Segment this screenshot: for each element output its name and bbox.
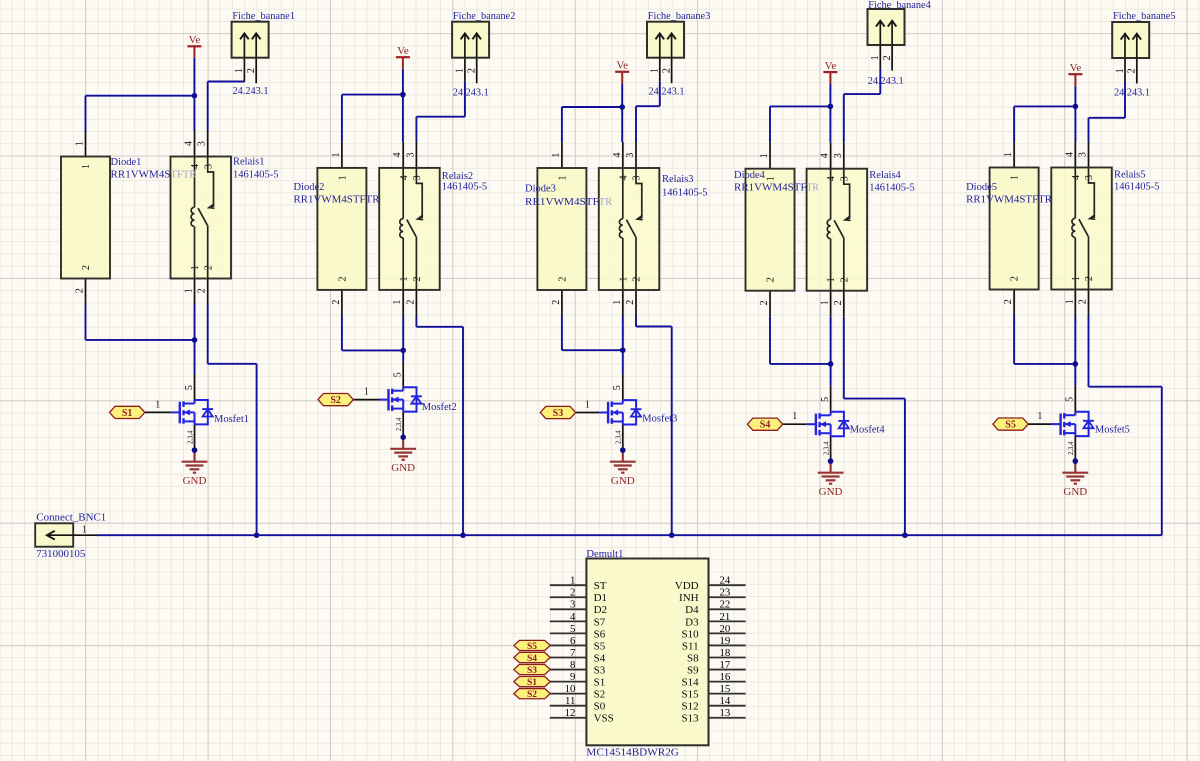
svg-text:2: 2 <box>203 265 214 270</box>
svg-text:1: 1 <box>234 68 245 73</box>
svg-text:2,3,4: 2,3,4 <box>823 441 830 455</box>
svg-text:INH: INH <box>679 592 699 604</box>
svg-text:S3: S3 <box>594 664 606 676</box>
svg-text:Diode4: Diode4 <box>734 170 766 181</box>
svg-text:2: 2 <box>625 300 636 305</box>
svg-text:18: 18 <box>720 647 731 659</box>
svg-text:731000105: 731000105 <box>36 549 85 560</box>
svg-text:Fiche_banane3: Fiche_banane3 <box>648 11 711 22</box>
svg-text:Ve: Ve <box>825 60 837 72</box>
svg-text:21: 21 <box>720 611 731 623</box>
svg-text:4: 4 <box>392 153 403 158</box>
svg-text:S0: S0 <box>594 701 606 713</box>
svg-text:5: 5 <box>820 397 831 402</box>
svg-text:GND: GND <box>1063 486 1087 498</box>
svg-text:2: 2 <box>467 68 478 73</box>
svg-text:Mosfet4: Mosfet4 <box>850 425 886 436</box>
svg-text:Ve: Ve <box>397 45 409 57</box>
svg-text:1: 1 <box>331 153 342 158</box>
svg-text:GND: GND <box>183 475 207 487</box>
svg-text:Diode1: Diode1 <box>111 157 142 168</box>
svg-text:S4: S4 <box>594 652 606 664</box>
svg-text:2: 2 <box>839 277 850 282</box>
svg-text:6: 6 <box>570 635 576 647</box>
svg-text:3: 3 <box>405 153 416 158</box>
svg-text:1: 1 <box>570 575 575 587</box>
svg-text:1: 1 <box>1064 299 1075 304</box>
svg-text:2: 2 <box>882 55 893 60</box>
svg-text:3: 3 <box>1078 152 1089 157</box>
svg-text:24.243.1: 24.243.1 <box>649 85 685 97</box>
svg-text:3: 3 <box>412 175 423 180</box>
svg-text:S1: S1 <box>122 408 133 419</box>
svg-text:4: 4 <box>184 141 195 146</box>
svg-text:1: 1 <box>612 300 623 305</box>
svg-text:3: 3 <box>625 153 636 158</box>
svg-text:1: 1 <box>820 300 831 305</box>
svg-text:1461405-5: 1461405-5 <box>1114 181 1160 192</box>
svg-text:S4: S4 <box>760 420 771 431</box>
svg-text:S11: S11 <box>682 640 699 652</box>
svg-text:Relais2: Relais2 <box>442 171 474 182</box>
svg-text:1: 1 <box>792 411 797 422</box>
svg-text:S8: S8 <box>687 652 699 664</box>
svg-text:23: 23 <box>720 587 731 599</box>
svg-text:D4: D4 <box>685 604 699 616</box>
svg-text:Mosfet5: Mosfet5 <box>1095 424 1130 435</box>
svg-text:1: 1 <box>1037 411 1042 422</box>
svg-text:1: 1 <box>766 176 777 181</box>
svg-text:2: 2 <box>570 587 575 599</box>
svg-text:4: 4 <box>1064 152 1075 157</box>
svg-text:1: 1 <box>1115 68 1126 73</box>
svg-text:19: 19 <box>720 635 731 647</box>
svg-text:3: 3 <box>1084 175 1095 180</box>
svg-text:Fiche_banane4: Fiche_banane4 <box>868 0 931 11</box>
svg-text:S6: S6 <box>594 628 606 640</box>
svg-text:Fiche_banane2: Fiche_banane2 <box>453 11 516 22</box>
svg-text:Relais1: Relais1 <box>233 156 265 167</box>
svg-text:2: 2 <box>75 288 86 293</box>
svg-text:2: 2 <box>197 288 208 293</box>
svg-text:RR1VWM4S: RR1VWM4S <box>111 170 171 181</box>
svg-text:20: 20 <box>720 623 731 635</box>
svg-text:1: 1 <box>551 153 562 158</box>
svg-text:3: 3 <box>632 176 643 181</box>
svg-text:S12: S12 <box>681 701 698 713</box>
svg-text:2: 2 <box>759 300 770 305</box>
svg-text:S14: S14 <box>681 677 699 689</box>
svg-text:2: 2 <box>833 300 844 305</box>
svg-text:4: 4 <box>820 153 831 158</box>
svg-text:4: 4 <box>618 176 629 181</box>
svg-text:24.243.1: 24.243.1 <box>1114 87 1150 99</box>
svg-text:ST: ST <box>594 580 607 592</box>
svg-text:Ve: Ve <box>616 60 628 72</box>
svg-text:Diode3: Diode3 <box>525 184 556 195</box>
svg-text:3: 3 <box>203 164 214 169</box>
svg-text:D1: D1 <box>594 592 607 604</box>
svg-text:Mosfet2: Mosfet2 <box>422 402 457 413</box>
svg-text:GND: GND <box>391 462 415 474</box>
svg-text:1: 1 <box>1010 175 1021 180</box>
svg-text:1: 1 <box>1003 152 1014 157</box>
svg-text:RR1VWM4STFTR: RR1VWM4STFTR <box>966 194 1052 205</box>
svg-text:1: 1 <box>558 176 569 181</box>
svg-text:1461405-5: 1461405-5 <box>869 183 915 194</box>
svg-text:3: 3 <box>839 176 850 181</box>
svg-text:1: 1 <box>618 277 629 282</box>
svg-text:2,3,4: 2,3,4 <box>396 417 403 431</box>
svg-text:13: 13 <box>720 707 731 719</box>
svg-text:16: 16 <box>720 671 731 683</box>
svg-text:24.243.1: 24.243.1 <box>868 75 904 87</box>
svg-text:S10: S10 <box>681 628 699 640</box>
svg-text:2: 2 <box>338 277 349 282</box>
svg-text:4: 4 <box>612 153 623 158</box>
svg-text:Relais4: Relais4 <box>869 170 901 181</box>
svg-text:3: 3 <box>197 141 208 146</box>
svg-text:Fiche_banane1: Fiche_banane1 <box>232 11 295 22</box>
svg-text:S15: S15 <box>681 689 699 701</box>
svg-text:RR1VWM4STF: RR1VWM4STF <box>734 183 807 194</box>
svg-text:3: 3 <box>833 153 844 158</box>
svg-text:2: 2 <box>412 277 423 282</box>
svg-text:4: 4 <box>190 164 201 169</box>
svg-text:2: 2 <box>558 277 569 282</box>
svg-text:1: 1 <box>392 300 403 305</box>
svg-text:S13: S13 <box>681 713 699 725</box>
svg-text:RR1VWM4STF: RR1VWM4STF <box>525 197 599 208</box>
svg-text:1461405-5: 1461405-5 <box>233 170 279 181</box>
svg-text:1: 1 <box>81 164 92 169</box>
svg-text:D3: D3 <box>685 616 699 628</box>
svg-text:4: 4 <box>826 176 837 181</box>
svg-text:3: 3 <box>570 599 575 611</box>
svg-text:Diode2: Diode2 <box>294 182 325 193</box>
svg-text:2,3,4: 2,3,4 <box>616 430 623 444</box>
svg-text:2,3,4: 2,3,4 <box>187 430 194 444</box>
svg-text:24.243.1: 24.243.1 <box>453 87 489 99</box>
svg-text:S5: S5 <box>594 640 606 652</box>
svg-text:1: 1 <box>650 68 661 73</box>
svg-text:2: 2 <box>766 277 777 282</box>
svg-text:11: 11 <box>565 695 575 707</box>
svg-text:S2: S2 <box>330 395 341 406</box>
svg-text:Relais3: Relais3 <box>662 174 694 185</box>
svg-text:S4: S4 <box>527 654 537 664</box>
svg-text:S3: S3 <box>527 666 537 676</box>
svg-text:Diode5: Diode5 <box>966 182 997 193</box>
svg-text:S2: S2 <box>527 690 537 700</box>
svg-text:1: 1 <box>338 175 349 180</box>
svg-text:Relais5: Relais5 <box>1114 170 1146 181</box>
svg-text:1: 1 <box>759 153 770 158</box>
svg-text:Ve: Ve <box>189 34 201 46</box>
svg-text:S1: S1 <box>594 677 606 689</box>
svg-text:2: 2 <box>1127 68 1138 73</box>
svg-text:2: 2 <box>405 300 416 305</box>
svg-text:Mosfet1: Mosfet1 <box>214 414 249 425</box>
svg-text:24.243.1: 24.243.1 <box>233 85 269 97</box>
svg-text:4: 4 <box>399 175 410 180</box>
svg-text:1: 1 <box>826 277 837 282</box>
svg-text:2: 2 <box>661 68 672 73</box>
svg-text:S5: S5 <box>1005 420 1016 431</box>
svg-text:7: 7 <box>570 647 576 659</box>
svg-text:10: 10 <box>565 683 576 695</box>
svg-text:2: 2 <box>1078 299 1089 304</box>
svg-text:5: 5 <box>612 385 623 390</box>
svg-text:1: 1 <box>190 265 201 270</box>
svg-text:2: 2 <box>1003 299 1014 304</box>
svg-text:1: 1 <box>364 387 369 398</box>
svg-text:14: 14 <box>720 695 731 707</box>
svg-text:GND: GND <box>819 486 843 498</box>
svg-text:Ve: Ve <box>1070 62 1082 74</box>
svg-text:1: 1 <box>455 68 466 73</box>
svg-text:5: 5 <box>184 385 195 390</box>
svg-text:4: 4 <box>1071 175 1082 180</box>
svg-text:TFTR: TFTR <box>171 170 197 181</box>
svg-text:15: 15 <box>720 683 731 695</box>
svg-text:2,3,4: 2,3,4 <box>1068 441 1075 455</box>
svg-text:VDD: VDD <box>675 580 699 592</box>
svg-text:1: 1 <box>75 141 86 146</box>
svg-text:GND: GND <box>611 475 635 487</box>
svg-text:RR1VWM4STFTR: RR1VWM4STFTR <box>294 194 380 205</box>
svg-text:2: 2 <box>551 300 562 305</box>
svg-text:Connect_BNC1: Connect_BNC1 <box>36 513 106 524</box>
svg-text:5: 5 <box>570 623 575 635</box>
svg-text:MC14514BDWR2G: MC14514BDWR2G <box>586 746 679 758</box>
svg-text:D2: D2 <box>594 604 607 616</box>
svg-text:2: 2 <box>246 68 257 73</box>
svg-text:Mosfet3: Mosfet3 <box>642 414 677 425</box>
svg-text:22: 22 <box>720 599 731 611</box>
svg-text:TR: TR <box>599 197 612 208</box>
svg-text:1: 1 <box>184 288 195 293</box>
svg-text:1: 1 <box>1071 276 1082 281</box>
svg-text:1: 1 <box>399 277 410 282</box>
svg-text:1: 1 <box>82 525 87 536</box>
svg-text:4: 4 <box>570 611 576 623</box>
svg-text:1: 1 <box>585 400 590 411</box>
svg-text:TR: TR <box>807 183 819 194</box>
svg-text:9: 9 <box>570 671 575 683</box>
svg-text:5: 5 <box>393 372 404 377</box>
svg-text:8: 8 <box>570 659 575 671</box>
svg-text:2: 2 <box>632 277 643 282</box>
svg-text:S1: S1 <box>527 678 537 688</box>
svg-text:Fiche_banane5: Fiche_banane5 <box>1113 11 1176 22</box>
svg-text:S9: S9 <box>687 664 699 676</box>
svg-text:12: 12 <box>565 707 576 719</box>
svg-text:2: 2 <box>331 300 342 305</box>
svg-text:2: 2 <box>81 265 92 270</box>
svg-text:S5: S5 <box>527 642 537 652</box>
svg-text:1461405-5: 1461405-5 <box>662 187 708 198</box>
svg-text:24: 24 <box>720 575 731 587</box>
svg-text:2: 2 <box>1084 276 1095 281</box>
svg-text:VSS: VSS <box>594 713 614 725</box>
svg-text:1461405-5: 1461405-5 <box>442 181 488 192</box>
svg-text:S2: S2 <box>594 689 606 701</box>
svg-text:5: 5 <box>1065 397 1076 402</box>
svg-text:S7: S7 <box>594 616 606 628</box>
svg-text:17: 17 <box>720 659 731 671</box>
svg-text:S3: S3 <box>553 408 564 419</box>
svg-text:1: 1 <box>870 55 881 60</box>
svg-text:1: 1 <box>155 399 160 410</box>
svg-text:2: 2 <box>1010 276 1021 281</box>
